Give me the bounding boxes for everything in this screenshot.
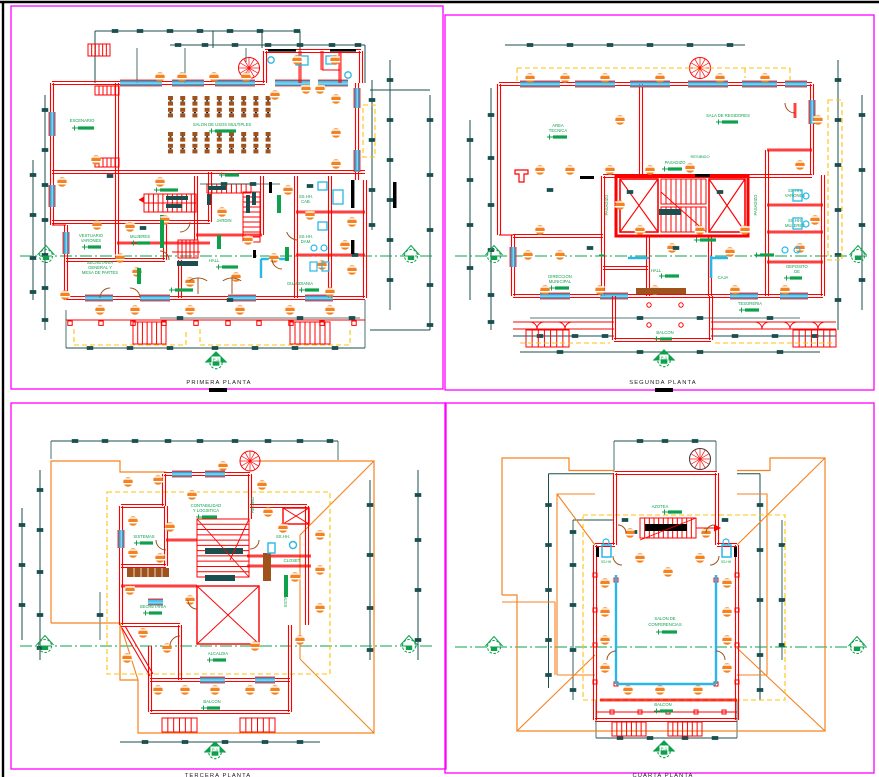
svg-text:TESORERIA: TESORERIA [738, 301, 762, 306]
svg-text:PRIMERA PLANTA: PRIMERA PLANTA [186, 380, 251, 386]
label AZOTEA [652, 504, 682, 515]
orange fixtures plan 2 [523, 73, 824, 295]
svg-text:P-1: P-1 [661, 355, 668, 360]
svg-text:CAB.: CAB. [301, 199, 311, 204]
toilets plan 1 right [310, 182, 343, 271]
walls plan 3 [120, 473, 312, 682]
svg-text:BALCON: BALCON [203, 699, 220, 704]
label PASADIZO v2 [753, 194, 758, 216]
svg-text:RECIBO: RECIBO [250, 496, 255, 513]
axis marker right plan 3 [401, 636, 418, 653]
label SSHH MUJERES [785, 218, 805, 228]
label ALCALDIA [207, 651, 228, 663]
label PASADIZO [662, 160, 686, 172]
label HALL [209, 258, 238, 270]
roof overhang dashed plan 4 [583, 515, 785, 700]
balcony plan 4 [596, 699, 737, 736]
area tecnica T mark plan 2 [515, 170, 528, 182]
label PASADIZO v1 [604, 194, 609, 216]
axis marker A right plan 1 [403, 246, 420, 263]
roof outline plan 4 [502, 458, 825, 731]
dimension lines plan 2 [467, 43, 866, 354]
label RESIBIDO [690, 154, 709, 159]
svg-text:SALON DE: SALON DE [654, 616, 675, 621]
svg-text:CUARTA PLANTA: CUARTA PLANTA [632, 773, 693, 777]
svg-text:SECRETARIA: SECRETARIA [140, 604, 167, 609]
label AREA TECNICA [547, 123, 567, 140]
svg-text:GUARDIANIA: GUARDIANIA [287, 281, 313, 286]
svg-text:TECNICA: TECNICA [549, 128, 568, 133]
porch dashed plan 2 [520, 342, 832, 344]
svg-text:SISTEMAS: SISTEMAS [133, 534, 154, 539]
label CONTABILIDAD [191, 503, 222, 520]
label SSHH p3 [276, 534, 290, 539]
label BALCON p4 [654, 702, 673, 714]
axis marker right plan 4 [849, 637, 866, 654]
wall columns plan 4 [593, 573, 739, 714]
svg-text:BALCON: BALCON [654, 702, 671, 707]
axis marker A left plan 1 [38, 246, 55, 263]
roof outline plan 3 [51, 461, 374, 733]
axis centerline plan 3 [20, 645, 432, 647]
svg-text:CLOSET: CLOSET [284, 558, 301, 563]
orange fixtures plan 3 [122, 461, 326, 695]
bottom steps plan 2 [526, 330, 836, 347]
label ESCENARIO [70, 118, 95, 131]
exterior walls plan 1 [51, 50, 367, 301]
roof overhang dashed plan 3 [107, 492, 330, 674]
svg-text:SS.HH.: SS.HH. [276, 534, 290, 539]
svg-text:SS.HH: SS.HH [601, 560, 612, 564]
balcony plan 2 [613, 288, 713, 342]
svg-text:VARONES: VARONES [81, 238, 101, 243]
small xbox plan 3 [283, 508, 309, 524]
porch wall plan 2 [513, 322, 836, 329]
right window plan 2 [809, 100, 815, 124]
svg-text:MUJERES: MUJERES [130, 234, 150, 239]
toilet plan 3 [268, 542, 297, 554]
label SALA DE REGIDORES [706, 113, 750, 125]
label CLOSET [284, 558, 301, 563]
elevator core and stair plan 2 [616, 176, 748, 236]
svg-text:HALL: HALL [209, 258, 220, 263]
shelf plan 3 [127, 568, 169, 577]
orange fixtures plan 1 [57, 55, 358, 315]
top-right door plan 2 [785, 103, 796, 118]
caja cyan wall plan 2 [628, 256, 728, 278]
svg-text:CONFERENCIAS: CONFERENCIAS [648, 622, 681, 627]
svg-text:DE: DE [794, 269, 800, 274]
north symbol plan 3 [205, 742, 226, 759]
axis marker left plan 3 [37, 636, 54, 653]
green bars plan 1 center [137, 195, 281, 284]
spiral stair plan 2 [690, 58, 711, 79]
dimension lines plan 1 [30, 29, 434, 350]
label MUJERES [130, 234, 150, 246]
svg-text:DAM.: DAM. [301, 239, 311, 244]
tables salon de usos multiples [168, 96, 271, 153]
panel frame CUARTA PLANTA [445, 403, 874, 773]
inner roof plan 4 [517, 458, 825, 731]
axis marker A right plan 2 [850, 246, 867, 263]
interior dim ticks plan 1 [107, 174, 360, 320]
label sshh left p4 [601, 560, 612, 564]
label CAJA [718, 275, 729, 280]
label SSHH CAB [299, 194, 313, 204]
windows plan 1 [49, 80, 360, 301]
porch dashed yellow plan 1 [74, 105, 375, 345]
label SECRETARIA p3 [140, 604, 167, 616]
interior dim ticks plan 2 [530, 174, 800, 320]
annex black lintels plan 1 [268, 49, 356, 52]
svg-text:P-1: P-1 [213, 357, 220, 362]
axis marker A left plan 2 [486, 246, 503, 263]
svg-text:SEGUNDA PLANTA: SEGUNDA PLANTA [629, 380, 696, 386]
exterior walls plan 2 [498, 83, 825, 298]
label VESTUARIO VARONES [79, 233, 104, 250]
svg-text:CAJA: CAJA [718, 275, 729, 280]
panel frame SEGUNDA PLANTA [445, 15, 874, 390]
balcony plan 3 [149, 680, 292, 732]
svg-text:PASADIZO: PASADIZO [665, 160, 687, 165]
svg-text:Y LOGISTICA: Y LOGISTICA [193, 508, 219, 513]
toilets plan 4 [596, 539, 737, 557]
title CUARTA PLANTA [632, 773, 693, 777]
windows plan 3 [118, 471, 275, 683]
doors plan 3 [156, 540, 259, 646]
spiral stair plan 4 [690, 449, 711, 470]
outside stair top-left plan 1 [88, 44, 110, 56]
svg-text:ESCENARIO: ESCENARIO [70, 118, 95, 123]
salon cyan walls plan 4 [616, 575, 716, 684]
roof dashes plan 2 [517, 68, 842, 260]
axis centerline plan 4 [455, 646, 868, 648]
svg-text:SALON DE USOS MULTIPLES: SALON DE USOS MULTIPLES [193, 122, 252, 127]
misc arrows p2 [599, 238, 774, 258]
label ESTAR [283, 575, 288, 607]
orange fixtures plan 4 [600, 528, 733, 695]
black marks plan 1 center [207, 180, 397, 258]
doors plan 4 [607, 525, 725, 660]
stair plan 3 [197, 519, 249, 581]
north symbol plan 1 [206, 352, 227, 369]
interior walls plan 1 [52, 83, 365, 298]
north symbol plan 2 [654, 350, 675, 367]
stair plan 4 [640, 518, 720, 540]
svg-text:PASADIZO: PASADIZO [753, 194, 758, 216]
label sshh right p4 [721, 560, 732, 564]
skylight xbox plan 3 [197, 586, 259, 644]
spiral stair plan 3 [240, 451, 260, 471]
annex interior walls plan 1 [268, 51, 351, 83]
label JARDIN [216, 218, 231, 223]
svg-text:JARDIN: JARDIN [216, 218, 231, 223]
svg-text:HALL: HALL [651, 268, 662, 273]
label HALL p2 [651, 268, 679, 279]
svg-text:MUNICIPAL: MUNICIPAL [549, 279, 572, 284]
misc green arrows p1 [154, 173, 319, 293]
doors plan 1 [100, 222, 298, 298]
axis centerline plan 2 [455, 255, 868, 257]
title TERCERA PLANTA [185, 773, 252, 777]
svg-text:MESA DE PARTES: MESA DE PARTES [82, 270, 118, 275]
svg-text:SALA DE REGIDORES: SALA DE REGIDORES [706, 113, 750, 118]
label SSHH VARONES [785, 188, 805, 198]
label TESORERIA [738, 301, 762, 313]
svg-text:ALCALDIA: ALCALDIA [208, 651, 228, 656]
svg-text:P-1: P-1 [212, 747, 219, 752]
dimension lines plan 4 [545, 439, 785, 740]
label SECRETARIA [82, 260, 118, 275]
dimension lines plan 3 [19, 439, 422, 744]
left window plan 2 [510, 247, 516, 267]
svg-text:PASADIZO: PASADIZO [604, 194, 609, 216]
panel frame TERCERA PLANTA [11, 403, 446, 769]
title PRIMERA PLANTA [186, 380, 251, 392]
axis marker left plan 4 [486, 637, 503, 654]
label SISTEMAS [133, 534, 154, 546]
label RECIBO [250, 496, 255, 513]
svg-text:SS.HH: SS.HH [721, 560, 732, 564]
svg-text:TERCERA PLANTA: TERCERA PLANTA [185, 773, 252, 777]
label DIRECCION MUNICIPAL [548, 274, 572, 291]
label GUARDIANIA [287, 281, 313, 286]
label SSHH DAM [299, 234, 313, 244]
title SEGUNDA PLANTA [629, 380, 696, 392]
svg-text:BALCON: BALCON [656, 330, 673, 335]
stairs plan 1 [95, 86, 330, 344]
svg-text:AZOTEA: AZOTEA [652, 504, 669, 509]
svg-text:P-1: P-1 [661, 746, 668, 751]
windows plan 2 [520, 81, 808, 299]
cabinet plan 3 [263, 553, 271, 581]
right wing toilets plan 2 [782, 190, 809, 253]
spiral stair plan 1 [239, 58, 260, 79]
porch columns plan 1 [66, 320, 365, 325]
north symbol plan 4 [654, 741, 675, 758]
axis centerline plan 1 [20, 255, 435, 257]
label DEPOSITO [784, 264, 809, 281]
label SALON DE CONFERENCIAS [648, 616, 681, 635]
walls plan 4 [594, 472, 739, 722]
svg-text:RESIBIDO: RESIBIDO [690, 154, 709, 159]
interior walls plan 2 [513, 84, 823, 296]
panel frame PRIMERA PLANTA [11, 6, 443, 389]
label SALON DE USOS MULTIPLES [193, 122, 252, 134]
